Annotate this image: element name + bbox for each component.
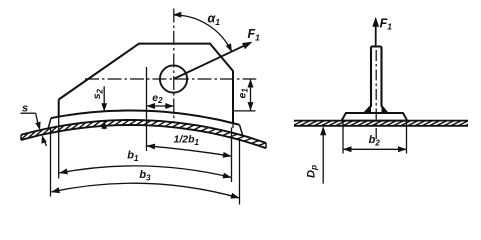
reinforcing pad (right view) — [342, 113, 408, 121]
dimension e2 — [147, 105, 174, 107]
reinforcing pad (left view) — [51, 111, 240, 125]
bracket (lifting lug plate) — [59, 44, 233, 124]
dimension b3 — [51, 183, 240, 198]
lug centerline — [375, 50, 377, 140]
weld fillet right — [382, 105, 389, 113]
dimension 1/2 b1 — [147, 146, 232, 156]
Dp shell reference arrow — [322, 128, 324, 184]
horizontal centerline of hole — [85, 78, 256, 80]
dimension b2 — [342, 121, 344, 153]
angle alpha1 arc — [174, 15, 232, 52]
extension lines below shell — [58, 117, 60, 179]
force F1 (right view) — [375, 21, 377, 47]
dimension s2 (pad thickness) — [103, 86, 105, 111]
force F1 (left view) — [174, 43, 250, 79]
bracket mid line (1/2 b1 reference) — [146, 67, 148, 151]
hole in bracket — [160, 65, 187, 92]
vertical centerline of hole — [173, 9, 175, 123]
dimension e1 — [234, 110, 256, 112]
dimension b1 — [59, 166, 232, 178]
weld fillet left — [364, 105, 371, 113]
lug plate (right view, edge-on) — [371, 46, 382, 48]
